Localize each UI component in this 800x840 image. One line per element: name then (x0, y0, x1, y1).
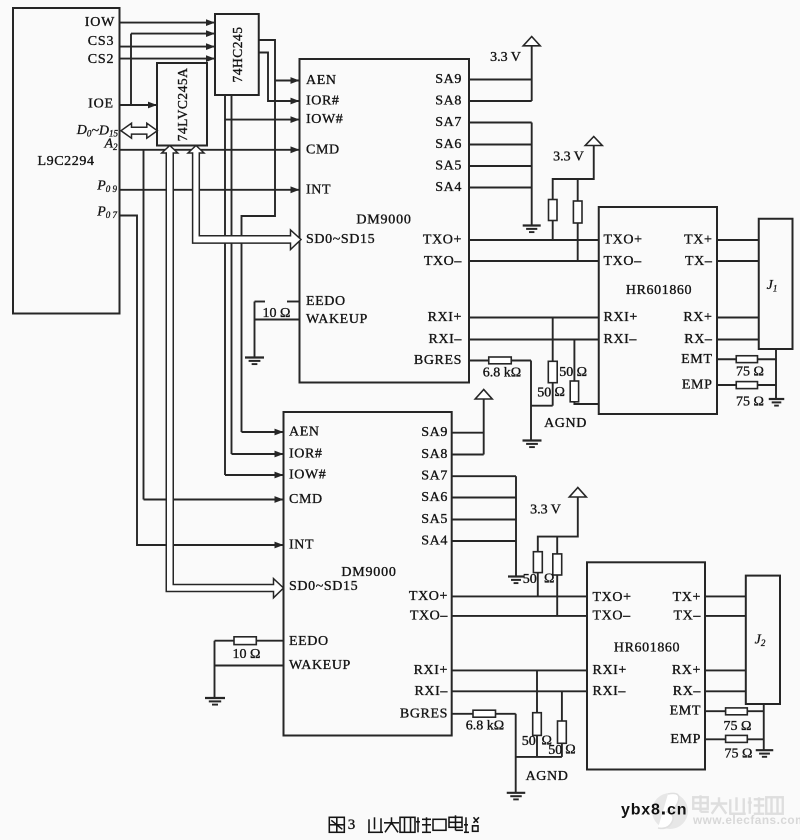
svg-text:TX–: TX– (685, 254, 713, 269)
svg-text:IOR#: IOR# (306, 94, 340, 109)
svg-text:TX+: TX+ (684, 233, 712, 248)
svg-text:TXO+: TXO+ (593, 590, 632, 605)
svg-text:IOW: IOW (85, 15, 115, 30)
svg-text:CS3: CS3 (88, 34, 115, 49)
svg-text:DM9000: DM9000 (356, 213, 411, 228)
svg-text:SD0~SD15: SD0~SD15 (306, 232, 375, 247)
svg-text:50: 50 (522, 734, 536, 749)
svg-text:SA6: SA6 (421, 490, 448, 505)
svg-text:6.8 kΩ: 6.8 kΩ (466, 719, 504, 734)
svg-text:INT: INT (289, 538, 314, 553)
svg-text:WAKEUP: WAKEUP (306, 312, 368, 327)
svg-text:RXI+: RXI+ (593, 663, 627, 678)
svg-text:EEDO: EEDO (306, 294, 346, 309)
svg-text:CS2: CS2 (88, 52, 115, 67)
svg-text:RXI–: RXI– (414, 684, 448, 699)
svg-text:IOR#: IOR# (289, 447, 323, 462)
svg-text:TXO–: TXO– (593, 608, 632, 623)
svg-text:IOW#: IOW# (289, 468, 326, 483)
svg-text:RX–: RX– (684, 332, 713, 347)
svg-text:IOE: IOE (88, 97, 114, 112)
svg-text:ybx8.cn: ybx8.cn (621, 798, 687, 820)
svg-text:SA9: SA9 (435, 72, 462, 87)
svg-text:INT: INT (306, 183, 331, 198)
svg-text:SA4: SA4 (435, 180, 462, 195)
svg-text:75 Ω: 75 Ω (736, 365, 764, 380)
svg-text:EMT: EMT (670, 704, 701, 719)
svg-text:SA5: SA5 (435, 159, 462, 174)
svg-text:50: 50 (559, 365, 573, 380)
svg-text:3.3 V: 3.3 V (490, 50, 521, 65)
svg-text:AGND: AGND (544, 416, 587, 431)
svg-text:TXO–: TXO– (410, 608, 449, 623)
svg-text:TX+: TX+ (673, 590, 701, 605)
svg-text:BGRES: BGRES (414, 353, 462, 368)
svg-text:74HC245: 74HC245 (230, 26, 245, 82)
svg-text:SA5: SA5 (421, 512, 448, 527)
svg-text:TXO–: TXO– (424, 254, 463, 269)
svg-text:RX+: RX+ (683, 310, 712, 325)
svg-text:L9C2294: L9C2294 (37, 154, 94, 169)
svg-text:EMP: EMP (670, 732, 701, 747)
svg-text:6.8 kΩ: 6.8 kΩ (483, 366, 521, 381)
svg-text:Ω: Ω (555, 385, 565, 400)
svg-text:SD0~SD15: SD0~SD15 (289, 579, 358, 594)
svg-text:3: 3 (348, 817, 356, 833)
svg-text:SA4: SA4 (421, 534, 448, 549)
svg-text:BGRES: BGRES (400, 706, 448, 721)
svg-text:DM9000: DM9000 (341, 565, 396, 580)
svg-text:SA7: SA7 (435, 115, 462, 130)
svg-text:3.3 V: 3.3 V (553, 150, 584, 165)
svg-text:SA6: SA6 (435, 137, 462, 152)
svg-text:75 Ω: 75 Ω (736, 395, 764, 410)
svg-text:RX–: RX– (673, 684, 702, 699)
svg-text:AGND: AGND (526, 769, 569, 784)
svg-text:EMT: EMT (681, 352, 712, 367)
svg-text:74LVC245A: 74LVC245A (175, 68, 190, 142)
svg-text:75 Ω: 75 Ω (725, 746, 753, 761)
svg-text:RX+: RX+ (672, 663, 701, 678)
svg-text:CMD: CMD (289, 492, 323, 507)
svg-text:3.3 V: 3.3 V (530, 503, 561, 518)
svg-text:10 Ω: 10 Ω (233, 647, 261, 662)
svg-text:Ω: Ω (544, 572, 554, 587)
svg-text:SA8: SA8 (421, 447, 448, 462)
svg-text:RXI–: RXI– (604, 332, 638, 347)
svg-text:IOW#: IOW# (306, 112, 343, 127)
svg-text:HR601860: HR601860 (626, 283, 692, 298)
svg-text:RXI+: RXI+ (604, 310, 638, 325)
svg-text:TXO+: TXO+ (409, 589, 448, 604)
svg-text:CMD: CMD (306, 142, 340, 157)
svg-text:AEN: AEN (306, 73, 337, 88)
svg-text:TXO–: TXO– (604, 254, 643, 269)
svg-text:75 Ω: 75 Ω (724, 719, 752, 734)
svg-text:TX–: TX– (674, 608, 702, 623)
svg-text:TXO+: TXO+ (423, 233, 462, 248)
svg-text:50: 50 (523, 572, 537, 587)
svg-text:RXI–: RXI– (428, 332, 462, 347)
svg-text:HR601860: HR601860 (614, 641, 680, 656)
svg-text:SA7: SA7 (421, 469, 448, 484)
svg-text:SA8: SA8 (435, 94, 462, 109)
svg-text:10 Ω: 10 Ω (263, 306, 291, 321)
svg-text:WAKEUP: WAKEUP (289, 658, 351, 673)
svg-text:EEDO: EEDO (289, 634, 329, 649)
svg-text:Ω: Ω (577, 365, 587, 380)
svg-text:SA9: SA9 (421, 425, 448, 440)
svg-text:www.elecfans.com: www.elecfans.com (692, 813, 800, 827)
svg-text:50: 50 (548, 743, 562, 758)
svg-text:TXO+: TXO+ (604, 233, 643, 248)
svg-text:50: 50 (537, 386, 551, 401)
svg-text:AEN: AEN (289, 425, 320, 440)
svg-text:Ω: Ω (565, 743, 575, 758)
svg-text:EMP: EMP (682, 378, 713, 393)
svg-text:RXI+: RXI+ (428, 310, 462, 325)
svg-text:RXI+: RXI+ (414, 663, 448, 678)
svg-text:RXI–: RXI– (593, 684, 627, 699)
